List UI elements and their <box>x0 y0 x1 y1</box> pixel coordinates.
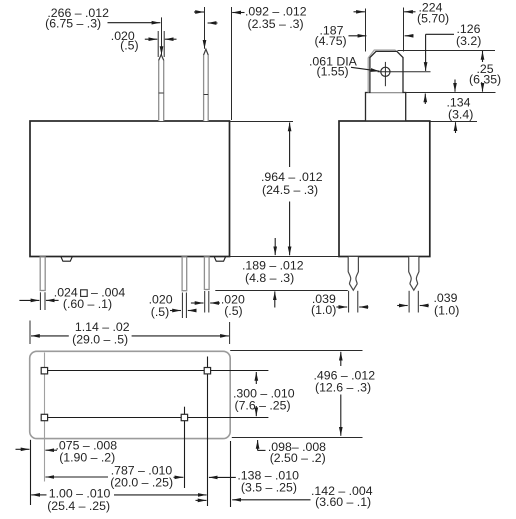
bottom middle pin A <box>182 257 187 291</box>
dim .075 label <box>56 438 118 464</box>
dim .098 label <box>268 440 326 465</box>
dim .787 line <box>45 476 183 478</box>
body bottom extension between views <box>230 256 340 258</box>
dim 1.00 label <box>47 487 110 513</box>
dim .300 arrows <box>255 372 257 416</box>
svg-text:(2.50 – .2): (2.50 – .2) <box>270 451 326 465</box>
dim .142 label <box>311 484 373 509</box>
footprint lower pad column line <box>184 407 186 488</box>
dim .126 label <box>456 22 481 48</box>
pin 1 (top side view) <box>159 55 164 121</box>
dim .266 leader and arrow <box>108 17 162 55</box>
footprint right pad column line <box>207 357 209 507</box>
dim .134 arrows <box>454 80 457 134</box>
svg-text:(1.90 – .2): (1.90 – .2) <box>59 450 115 464</box>
QC tab blade <box>368 50 403 93</box>
svg-text:(3.4): (3.4) <box>448 108 473 122</box>
svg-text:(5.70): (5.70) <box>417 11 449 25</box>
dim .126 leader <box>425 34 454 104</box>
footprint left pad column line <box>44 353 46 482</box>
seating plane line <box>215 290 347 292</box>
bottom middle pin B <box>204 257 209 290</box>
dim .187 leader and arrows <box>349 35 414 37</box>
end view pin left <box>348 257 358 290</box>
pin 1 extension lines <box>158 31 164 57</box>
pin B extension lines <box>205 291 209 313</box>
footprint top extension for .496 <box>230 350 362 352</box>
dim .075 arrows <box>16 448 58 451</box>
dim .266 label <box>45 6 109 31</box>
dim .25 arrows <box>482 51 484 92</box>
svg-text:(.60 – .1): (.60 – .1) <box>63 297 112 311</box>
dim 1.00 line <box>31 494 206 496</box>
dim .020 pin A label <box>149 292 173 318</box>
pin A extension lines <box>182 293 186 319</box>
dim .964 line <box>289 123 291 256</box>
relay body (end view) <box>339 121 430 257</box>
svg-text:(25.4 – .25): (25.4 – .25) <box>47 499 110 513</box>
dim .189 label <box>242 259 304 285</box>
end view body top extension <box>430 121 477 123</box>
dim .024 arrows <box>19 299 58 301</box>
dim .224 label <box>417 1 449 26</box>
svg-text:(4.8 – .3): (4.8 – .3) <box>245 271 294 285</box>
pad top-right <box>204 368 210 374</box>
svg-text:(1.55): (1.55) <box>317 65 349 79</box>
shoulder extension line <box>406 92 496 94</box>
dim .224 arrows <box>354 11 416 13</box>
svg-text:(.5): (.5) <box>224 304 242 318</box>
tab hole .061 DIA <box>378 62 431 86</box>
dim .098 leader <box>258 440 266 451</box>
bottom left pin <box>40 257 45 291</box>
pin 2 centerline <box>204 7 206 49</box>
svg-text:(6.75 – .3): (6.75 – .3) <box>45 17 101 31</box>
PCB footprint outline <box>30 351 231 438</box>
end view pin right <box>409 257 419 290</box>
svg-text:(29.0 – .5): (29.0 – .5) <box>72 332 128 346</box>
dim .039 left arrows <box>336 306 368 308</box>
dim .020 pin A arrows <box>170 310 195 312</box>
svg-text:(3.2): (3.2) <box>456 34 481 48</box>
svg-text:(4.75): (4.75) <box>315 34 347 48</box>
left pin extension lines <box>40 292 45 310</box>
dim .138 arrow <box>209 476 236 478</box>
footprint right edge extension <box>230 441 232 507</box>
dim .300 label <box>233 387 295 413</box>
svg-text:(3.60 – .1): (3.60 – .1) <box>315 495 371 509</box>
QC tab base <box>366 93 406 121</box>
svg-text:(.5): (.5) <box>120 39 138 53</box>
dim .024 label <box>54 286 126 311</box>
svg-text:(3.5 – .25): (3.5 – .25) <box>241 480 297 494</box>
dim .25 label <box>469 62 501 87</box>
dim .092 label <box>245 5 307 32</box>
QC tab extension lines <box>366 8 404 52</box>
svg-text:(1.0): (1.0) <box>434 304 459 318</box>
dim .138 label <box>237 469 299 495</box>
standoff bump right <box>214 257 225 261</box>
case edge extension line <box>231 7 233 120</box>
dim .187 label <box>315 24 347 49</box>
pad bottom-right <box>181 414 187 420</box>
dim .134 label <box>447 96 474 122</box>
dim .039 right label <box>434 291 460 318</box>
footprint left edge extension <box>30 440 32 505</box>
svg-text:(.5): (.5) <box>151 305 169 319</box>
body top extension to dim .964 <box>230 121 294 123</box>
svg-text:(20.0 – .25): (20.0 – .25) <box>110 475 173 489</box>
dim .061 label <box>309 54 358 78</box>
pad top-left <box>41 368 47 374</box>
svg-text:(24.5 – .3): (24.5 – .3) <box>262 183 318 197</box>
dim .189 top arrow <box>274 238 276 255</box>
dim .020 top label <box>111 29 139 53</box>
pad row bottom line <box>44 417 268 419</box>
pin 2 (top side view) <box>204 49 209 121</box>
dim .496 label <box>314 369 376 395</box>
standoff bump left <box>61 257 72 261</box>
svg-text:(2.35 – .3): (2.35 – .3) <box>248 17 304 31</box>
dim 1.14 line <box>31 335 229 337</box>
dim .039 left label <box>311 292 336 317</box>
end view pin right extension lines <box>409 291 418 313</box>
dim 1.14 label <box>72 320 130 346</box>
end view pin left extension lines <box>349 291 358 313</box>
dim .964 label <box>261 170 323 197</box>
dim .020 pin B label <box>221 293 245 319</box>
dim .020 pin B arrows <box>191 302 220 304</box>
relay body (side view) <box>30 121 230 257</box>
dim .189 bottom arrow <box>274 291 276 307</box>
dim .039 right arrows <box>397 305 429 307</box>
dim .020 top arrows <box>145 38 177 40</box>
dim .092 arrow at case edge <box>232 12 244 14</box>
svg-text:(6.35): (6.35) <box>469 73 501 87</box>
dim .142 arrows <box>196 499 311 502</box>
pad bottom-left <box>41 414 47 420</box>
svg-text:(12.6 – .3): (12.6 – .3) <box>315 381 371 395</box>
svg-text:(7.6 – .25): (7.6 – .25) <box>235 398 291 412</box>
footprint bottom extension for .496 <box>232 437 363 439</box>
dim .061 leader <box>351 67 380 71</box>
dim 1.14 extension ticks <box>30 321 230 345</box>
pad row top line <box>44 370 268 372</box>
dim .496 line <box>340 352 342 436</box>
svg-text:(1.0): (1.0) <box>311 303 336 317</box>
tab top extension line <box>398 50 496 52</box>
dim .787 label <box>110 464 173 490</box>
dim .092 arrows at pin 2 <box>194 12 218 23</box>
